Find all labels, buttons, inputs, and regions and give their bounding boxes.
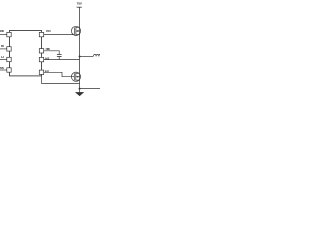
ground xyxy=(76,89,83,96)
svg-text:LI: LI xyxy=(1,55,4,59)
transistor M1 high-side NMOS xyxy=(71,26,80,35)
wire LO to M2 gate xyxy=(44,72,75,76)
pin LI xyxy=(7,57,11,61)
wire SS input xyxy=(0,69,7,71)
wire LI input xyxy=(0,59,7,61)
wire switch node to inductor xyxy=(80,55,94,57)
wire COM return from IC corner xyxy=(42,76,80,84)
wire HI input xyxy=(0,48,7,50)
svg-text:HB: HB xyxy=(46,47,50,51)
wire HO to M1 gate xyxy=(44,34,75,36)
pin VDD xyxy=(7,32,11,36)
wire ground net to right edge xyxy=(80,88,100,90)
wire HB to bootstrap cap xyxy=(44,51,60,55)
svg-text:HO: HO xyxy=(46,29,51,33)
capacitor C1 bootstrap xyxy=(57,53,62,55)
pin SS xyxy=(7,68,11,72)
inductor L1 output xyxy=(93,54,101,56)
transistor M2 low-side NMOS xyxy=(71,72,80,81)
wire VDD input xyxy=(0,34,7,36)
IC U1 body xyxy=(10,31,42,76)
wire supply rail to ground via drain-source chain xyxy=(79,7,81,88)
pin HO xyxy=(39,32,43,36)
wire HS to switch node xyxy=(44,59,80,61)
node switch junction xyxy=(79,56,81,58)
svg-text:SS: SS xyxy=(0,66,4,70)
pin HI xyxy=(7,47,11,51)
node ground junction xyxy=(79,88,81,90)
svg-text:HI: HI xyxy=(1,44,4,48)
svg-text:75V: 75V xyxy=(77,2,82,6)
pin HB xyxy=(39,49,43,53)
svg-text:DD: DD xyxy=(0,29,4,33)
pin LO xyxy=(39,70,43,74)
pin HS xyxy=(39,57,43,61)
power rail bar xyxy=(77,6,82,8)
